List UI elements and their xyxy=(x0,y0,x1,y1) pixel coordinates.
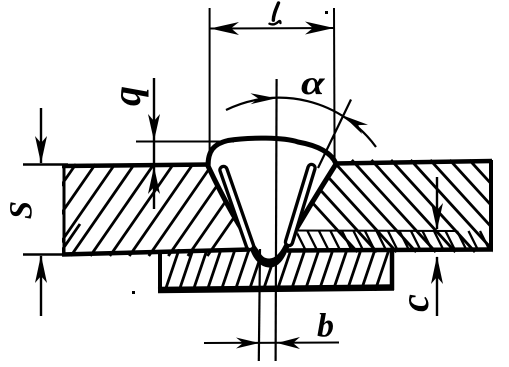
svg-text:S: S xyxy=(4,201,40,219)
svg-text:q: q xyxy=(104,86,149,106)
svg-text:b: b xyxy=(317,308,334,345)
svg-text:c: c xyxy=(392,294,437,312)
svg-text:α: α xyxy=(301,65,325,102)
